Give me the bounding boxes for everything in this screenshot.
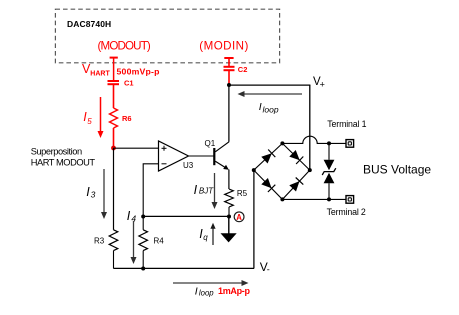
- wire C1 to R6: [113, 84, 115, 108]
- current arrow Iloop (top): [238, 91, 303, 97]
- label Superposition HART MODOUT: [31, 147, 96, 168]
- svg-text:Superposition: Superposition: [31, 147, 82, 157]
- capacitor C2: [224, 67, 235, 70]
- svg-text:HART MODOUT: HART MODOUT: [31, 157, 96, 167]
- wire MODOUT lead to C1: [113, 58, 115, 80]
- svg-text:1mAp-p: 1mAp-p: [218, 286, 251, 296]
- label I5: [83, 110, 92, 126]
- svg-text:R5: R5: [237, 189, 248, 198]
- node A junction (red dot): [111, 146, 116, 151]
- svg-text:I: I: [259, 101, 262, 113]
- svg-text:500mVp-p: 500mVp-p: [117, 67, 160, 77]
- wire Q1 emitter to R5: [228, 170, 230, 190]
- diode bridge frame: [254, 143, 310, 199]
- wire R4 to bottom rail: [142, 251, 144, 269]
- wire right rail up to bridge left corner: [253, 170, 255, 268]
- node R4 bottom junction: [141, 267, 145, 271]
- svg-text:HART: HART: [90, 70, 110, 77]
- label I4: [127, 209, 137, 224]
- svg-text:(MODIN): (MODIN): [199, 39, 249, 52]
- label I3: [86, 185, 95, 200]
- terminal 1 connector: [346, 140, 354, 148]
- svg-text:A: A: [236, 213, 242, 222]
- label V+: [313, 76, 325, 90]
- current arrow I4: [131, 221, 137, 264]
- node bridge right corner: [308, 168, 312, 172]
- svg-text:5: 5: [87, 117, 92, 126]
- label Iq: [199, 227, 208, 242]
- svg-text:4: 4: [131, 214, 136, 224]
- svg-text:DAC8740H: DAC8740H: [67, 19, 111, 29]
- label V-: [260, 260, 270, 274]
- svg-text:loop: loop: [199, 289, 214, 298]
- node bridge bottom corner: [280, 197, 284, 201]
- node bridge left corner: [252, 168, 256, 172]
- svg-text:BJT: BJT: [199, 186, 214, 195]
- svg-text:U3: U3: [183, 161, 194, 170]
- svg-text:Terminal 1: Terminal 1: [327, 119, 366, 129]
- node bridge top corner: [280, 141, 284, 145]
- wire minus input feedback: [143, 164, 158, 217]
- svg-text:Q1: Q1: [205, 139, 216, 148]
- node zener top junction: [327, 141, 331, 145]
- svg-text:3: 3: [91, 190, 96, 200]
- current arrow I3: [101, 169, 107, 219]
- current arrow quiescent (thick down arrow): [221, 217, 237, 243]
- svg-text:q: q: [203, 233, 208, 242]
- svg-text:-: -: [267, 264, 270, 274]
- current arrow IBJT: [212, 173, 218, 209]
- wire C2 to collector node: [228, 70, 230, 85]
- resistor R5: [225, 189, 234, 207]
- resistor R6: [110, 108, 118, 128]
- svg-text:R3: R3: [94, 237, 105, 246]
- node R5 bottom junction: [227, 215, 231, 219]
- wire Q1 collector up: [228, 85, 230, 142]
- node minus feedback junction: [141, 215, 145, 219]
- current arrow Iloop (bottom): [173, 280, 249, 286]
- svg-text:R6: R6: [122, 114, 132, 123]
- wire bridge bottom to Terminal 2: [282, 198, 345, 200]
- wire R6 to node A: [113, 128, 115, 148]
- current arrow Iq (up): [210, 223, 215, 245]
- svg-text:C2: C2: [238, 65, 248, 74]
- node collector junction: [227, 83, 231, 87]
- wire bottom rail V-: [114, 267, 255, 269]
- DAC8740H dashed box: [55, 9, 279, 63]
- node MODIN terminal T-bar: [224, 57, 233, 59]
- TVS zener diode: [322, 143, 336, 199]
- label Iloop (top): [259, 101, 279, 115]
- resistor R3: [109, 230, 118, 251]
- capacitor C1: [108, 81, 120, 84]
- transistor Q1: [214, 142, 229, 170]
- svg-text:R4: R4: [154, 237, 165, 246]
- op-amp U3: [159, 141, 189, 171]
- wire MODIN lead to C2: [228, 58, 230, 66]
- svg-text:(MODOUT): (MODOUT): [98, 39, 151, 52]
- diode D1 (left-top edge): [261, 150, 275, 164]
- label Iloop (bottom): [195, 285, 215, 297]
- ammeter A: [234, 212, 244, 222]
- terminal 2 connector: [346, 196, 354, 204]
- diode D4 (bottom-right edge): [289, 178, 303, 192]
- svg-text:C1: C1: [124, 79, 134, 88]
- wire I4 row: [143, 215, 229, 217]
- svg-text:BUS Voltage: BUS Voltage: [363, 163, 431, 177]
- wire R5 to ammeter node: [228, 207, 230, 217]
- current arrow I5: [98, 97, 104, 138]
- diode D3 (left-bottom edge): [261, 178, 275, 192]
- svg-text:loop: loop: [263, 104, 279, 114]
- wire bridge top to Terminal 1 with hop: [282, 136, 345, 143]
- svg-text:I: I: [127, 209, 131, 223]
- node MODOUT terminal T-bar: [110, 57, 118, 59]
- wire V+ rail down to bridge right corner: [309, 85, 311, 170]
- svg-text:Terminal 2: Terminal 2: [327, 207, 366, 217]
- wire node A to op-amp plus input: [114, 147, 159, 149]
- diode D2 (top-right edge): [289, 150, 303, 164]
- wire R3 to bottom rail: [113, 251, 115, 269]
- resistor R4: [139, 217, 148, 251]
- node zener bottom junction: [327, 197, 331, 201]
- label IBJT: [194, 183, 215, 197]
- wire collector node to V+ rail: [229, 84, 310, 86]
- svg-text:I: I: [194, 183, 198, 197]
- wire op-amp output to Q1 base: [189, 155, 214, 157]
- label VHART 500mVp-p: [82, 62, 160, 77]
- svg-text:I: I: [195, 285, 198, 297]
- wire node A down to R3: [113, 148, 115, 230]
- svg-text:+: +: [320, 80, 325, 90]
